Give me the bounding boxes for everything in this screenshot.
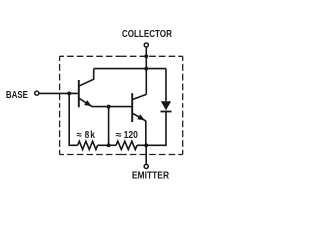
package outline top edge right half [121,55,183,57]
package outline right edge lower half [182,105,184,154]
wire diode anode branch [165,69,167,102]
wire R1 right lead [98,144,109,146]
svg-text:k: k [90,130,95,141]
transistor Q1 emitter diagonal [79,99,92,107]
package outline bottom edge right half [121,154,183,156]
resistor R1 8k zigzag [78,141,98,149]
diode D1 triangle [161,101,171,110]
terminal BASE circle [35,91,39,95]
transistor Q2 emitter diagonal [133,113,146,121]
wire base input [39,92,78,94]
resistor R2 120 zigzag [116,141,137,149]
transistor Q1 base bar [78,80,80,107]
diode D1 cathode bar [161,111,172,113]
node base/R1 junction [67,91,71,95]
package outline bottom edge left half [60,154,122,156]
wire Q2 emitter vertical [145,121,147,146]
wire Q1 emitter to Q2 base [92,106,132,108]
wire R2 left lead [109,144,116,146]
node emitter junction [144,143,148,147]
package outline left edge lower half [59,105,61,154]
terminal EMITTER circle [144,164,148,168]
transistor Q2 emitter arrow [137,114,145,120]
transistor Q1 emitter arrow [84,100,92,106]
wire collector horizontal branch [94,68,166,70]
wire R2 right lead [137,144,146,146]
wire collector vertical [145,47,147,94]
svg-text:COLLECTOR: COLLECTOR [122,29,172,40]
package outline (dashed box) top edge left half [60,55,122,57]
node Q1 emitter/R2 junction [107,105,111,109]
package outline left edge upper half [59,56,61,105]
wire diode cathode down [146,111,166,145]
wire Q1 collector [80,69,94,86]
transistor Q2 base bar [131,93,133,122]
svg-text:EMITTER: EMITTER [132,171,170,182]
terminal COLLECTOR circle [144,43,148,47]
svg-text:BASE: BASE [6,90,28,101]
node collector/package junction [144,54,148,58]
wire R2 branch vertical [108,107,110,146]
svg-text:≈: ≈ [116,130,123,141]
node collector branch junction [144,67,148,71]
svg-text:≈: ≈ [77,130,83,141]
wire R1 branch vertical [69,93,77,145]
transistor Q2 collector diagonal [133,94,146,99]
package outline right edge upper half [182,56,184,105]
svg-text:8: 8 [85,130,90,141]
node R1/R2 bottom junction [107,143,111,147]
wire emitter output [145,145,147,164]
svg-text:120: 120 [124,130,139,141]
